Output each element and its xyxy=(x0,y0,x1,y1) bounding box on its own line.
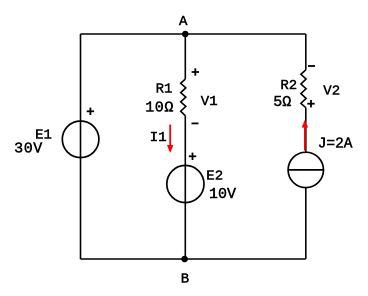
wire right branch upper xyxy=(305,34,307,70)
node A xyxy=(182,31,189,38)
arrow I1 xyxy=(167,125,173,153)
svg-text:R2: R2 xyxy=(280,78,297,94)
svg-text:E2: E2 xyxy=(206,168,223,184)
wire top: node A horizontal rail xyxy=(81,33,306,35)
plus V1 xyxy=(192,68,199,75)
wire middle branch upper xyxy=(184,34,186,79)
resistor R1 xyxy=(181,79,186,116)
svg-text:10V: 10V xyxy=(209,186,236,203)
wire right branch middle xyxy=(305,108,307,153)
svg-text:B: B xyxy=(181,272,189,288)
svg-text:J=2A: J=2A xyxy=(318,136,353,152)
svg-text:10Ω: 10Ω xyxy=(145,99,174,116)
svg-text:A: A xyxy=(179,14,188,30)
svg-text:5Ω: 5Ω xyxy=(273,94,291,111)
minus V1 xyxy=(192,122,199,124)
svg-text:V2: V2 xyxy=(323,84,340,100)
resistor R2 xyxy=(301,70,306,108)
current source J bar xyxy=(288,169,323,171)
plus E2 xyxy=(189,153,196,160)
current source J circle xyxy=(288,152,323,187)
wire bottom: node B horizontal rail xyxy=(81,258,306,260)
arrow J xyxy=(302,120,308,150)
plus V2 xyxy=(307,100,314,107)
minus V2 xyxy=(308,65,315,67)
svg-text:V1: V1 xyxy=(201,94,218,110)
svg-text:I1: I1 xyxy=(150,130,167,146)
wire left branch xyxy=(80,34,82,259)
node B xyxy=(181,256,188,263)
plus E1 xyxy=(87,108,94,115)
wire right branch lower xyxy=(305,188,307,260)
voltage source E1 xyxy=(62,121,99,158)
svg-text:30V: 30V xyxy=(14,141,43,158)
voltage source E2 xyxy=(167,165,204,202)
wire middle branch lower xyxy=(184,116,186,259)
svg-text:R1: R1 xyxy=(156,81,173,97)
